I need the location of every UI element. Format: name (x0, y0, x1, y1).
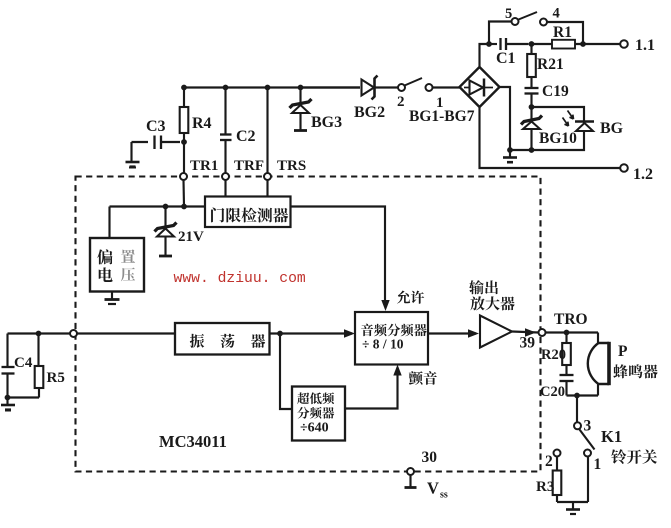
svg-text:÷ 8 / 10: ÷ 8 / 10 (362, 337, 404, 352)
wire switch 4 down (547, 22, 583, 44)
svg-text:39: 39 (520, 335, 536, 352)
wire C4 R5 bottom (8, 396, 40, 398)
wire top rail (184, 86, 360, 88)
svg-text:V: V (427, 479, 439, 498)
zener diode BG10 (530, 107, 532, 120)
wire to switch 3 (576, 396, 578, 423)
node TRS top (265, 85, 271, 91)
node protection box bottom (529, 147, 535, 153)
label threshold detector text (211, 208, 224, 223)
capacitor C3 (161, 141, 180, 143)
svg-text:P: P (618, 343, 628, 360)
arrow into tone divider left (344, 329, 355, 337)
pin switch 5 (512, 18, 519, 25)
svg-text:1.2: 1.2 (633, 166, 653, 183)
ground bridge (509, 150, 511, 157)
node C2 top (223, 85, 229, 91)
wire protection box (532, 107, 585, 150)
wire sub divider to tone divider (345, 369, 398, 409)
wire oscillator output (270, 332, 353, 334)
svg-text:www. dziuu. com: www. dziuu. com (174, 271, 306, 287)
svg-text:21V: 21V (178, 229, 204, 245)
resistor R20 (565, 333, 567, 344)
label sub divider line1 (297, 392, 309, 404)
diode BG (575, 120, 594, 123)
zener diode BG3 (299, 88, 301, 104)
wire bridge right down (500, 87, 532, 150)
node C4 R5 junction (36, 331, 42, 337)
node R1 right (580, 41, 586, 47)
wire to sub divider (280, 334, 292, 410)
svg-text:1.1: 1.1 (635, 37, 655, 54)
svg-text:C1: C1 (496, 50, 516, 67)
wire buzzer bottom (597, 384, 599, 396)
capacitor C19 (525, 87, 539, 89)
label output amp line2 (470, 296, 484, 310)
svg-text:30: 30 (422, 449, 438, 466)
node C1 left (486, 41, 492, 47)
svg-text:TR1: TR1 (190, 158, 218, 174)
wire bridge top to C1 node (480, 44, 490, 67)
switch 5 lever (519, 12, 538, 20)
svg-text:BG2: BG2 (354, 104, 385, 121)
label sub divider line2 (297, 407, 309, 419)
ground C4 R5 (6, 398, 8, 405)
label warble (409, 371, 423, 385)
node C1 R21 junction (529, 41, 535, 47)
ground Vss (409, 475, 411, 487)
wire bias box feed (108, 207, 110, 239)
svg-text:4: 4 (553, 6, 560, 22)
node R4 top (181, 85, 187, 91)
pin oscillator input on dashed edge (70, 330, 77, 337)
label buzzer text (613, 364, 627, 378)
pin switch 4 (540, 19, 547, 26)
pin 30 Vss (407, 468, 414, 475)
wire buzzer top (597, 333, 599, 344)
svg-text:BG10: BG10 (539, 130, 577, 147)
label tone divider line1 (361, 324, 373, 337)
wire up to switch 5 (489, 22, 512, 45)
ground C3 (130, 142, 132, 161)
node switch3 branch (574, 393, 580, 399)
svg-text:C3: C3 (146, 118, 166, 135)
svg-text:3: 3 (584, 418, 592, 435)
arrow amp output (525, 328, 536, 336)
wire hook to bridge (433, 86, 460, 88)
wire TRO net (546, 331, 599, 333)
pin switch hook 1 (426, 84, 433, 91)
arrow into amp (468, 329, 479, 337)
ground switch (572, 502, 574, 509)
svg-text:1: 1 (594, 456, 602, 473)
terminal L1 (620, 40, 628, 48)
svg-text:C20: C20 (540, 384, 565, 400)
capacitor C2 (224, 88, 226, 135)
node protection box top (529, 104, 535, 110)
capacitor C4 (6, 334, 8, 368)
zener diode 21V (164, 207, 166, 227)
pin TRS (264, 173, 271, 180)
zener diode BG2 (362, 80, 375, 96)
wire amp output (512, 332, 539, 333)
svg-text:÷640: ÷640 (300, 421, 329, 436)
svg-text:TRF: TRF (234, 158, 264, 174)
switch hook lever (405, 78, 423, 86)
buzzer P (588, 343, 609, 384)
wire rail to BG2 (301, 86, 361, 88)
pin switch hook 2 (398, 84, 405, 91)
block threshold detector (205, 197, 291, 228)
label oscillator text (190, 334, 204, 348)
wire L2 (480, 107, 621, 168)
svg-text:C19: C19 (542, 83, 569, 100)
node divider branch (277, 331, 283, 337)
op-amp output amplifier triangle (480, 316, 512, 348)
svg-text:ss: ss (440, 490, 448, 501)
svg-text:MC34011: MC34011 (159, 432, 227, 451)
svg-text:TRO: TRO (554, 311, 588, 328)
svg-text:R4: R4 (192, 115, 212, 132)
node bridge ground (507, 147, 513, 153)
node 21V zener top (163, 204, 169, 210)
wire C20 bottom (567, 394, 599, 396)
wire bias row (110, 205, 206, 207)
node TR1 bias junction (181, 204, 187, 210)
svg-text:C4: C4 (14, 355, 33, 371)
resistor R3 (556, 457, 558, 471)
resistor R4 (183, 88, 185, 108)
label output amp line1 (469, 280, 484, 294)
pin TR1 (180, 173, 187, 180)
bridge rectifier BG1-BG7 (460, 67, 500, 107)
svg-text:TRS: TRS (277, 158, 306, 174)
svg-text:5: 5 (505, 6, 512, 22)
svg-text:BG: BG (600, 120, 624, 137)
svg-text:R1: R1 (553, 24, 572, 41)
svg-text:2: 2 (397, 94, 405, 110)
pin switch 1 (584, 450, 591, 457)
block tone ringer divider (355, 312, 428, 365)
block sub-audio divider (292, 387, 345, 441)
wire threshold to divider (291, 207, 386, 307)
wire TRF into box (224, 180, 226, 197)
resistor R5 (37, 334, 39, 367)
svg-text:R5: R5 (47, 370, 65, 386)
wire divider to amp (428, 332, 476, 334)
svg-text:2: 2 (545, 453, 553, 470)
arrow into tone divider bottom (393, 365, 401, 376)
wire TR1 down (182, 180, 185, 207)
node R20 top (564, 330, 570, 336)
svg-text:R3: R3 (536, 479, 554, 495)
pin switch 2 (554, 450, 561, 457)
svg-text:BG1-BG7: BG1-BG7 (409, 108, 475, 125)
switch K1 lever (580, 430, 595, 450)
ground bias box (111, 292, 113, 299)
IC MC34011 dashed outline box (76, 177, 541, 472)
capacitor C1 (489, 43, 497, 45)
label bias voltage text (97, 249, 112, 264)
svg-text:C2: C2 (236, 128, 256, 145)
label ring switch text (611, 449, 626, 464)
resistor R1 (532, 43, 553, 45)
pin TRF (222, 173, 229, 180)
wire oscillator input (8, 332, 176, 334)
terminal L2 (620, 164, 628, 172)
wire TRS (266, 88, 268, 174)
svg-text:R21: R21 (537, 56, 564, 73)
resistor R21 (530, 44, 532, 54)
pin switch 3 (574, 422, 581, 429)
wire switch bottom (557, 501, 588, 503)
svg-text:BG3: BG3 (311, 114, 342, 131)
arrow into tone divider top (381, 300, 389, 311)
node BG3 top (298, 85, 304, 91)
block bias voltage (90, 238, 144, 292)
svg-text:R20: R20 (541, 347, 566, 363)
pin 39 TRO (539, 329, 546, 336)
block oscillator (175, 323, 270, 355)
capacitor C20 (560, 374, 574, 376)
label enable (397, 290, 410, 303)
svg-text:K1: K1 (601, 427, 622, 446)
